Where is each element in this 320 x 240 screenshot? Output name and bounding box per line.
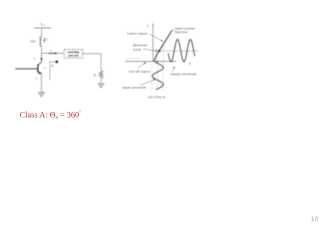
inductor RFC [40,37,42,46]
svg-text:Quiescent: Quiescent [133,43,148,47]
svg-text:vCE: vCE [43,67,48,71]
wire RFC to collector node [41,46,43,53]
svg-text:Class A: Θa = 360°: Class A: Θa = 360° [20,110,82,120]
wire collector node down to transistor [41,53,43,62]
axis vBE horizontal [125,60,176,62]
svg-text:vBE: vBE [35,77,39,80]
transistor Q1 emitter lead with arrow [38,71,42,74]
label Linear region [127,32,163,42]
label Input waveform [123,79,156,90]
dashed guide left [151,62,153,92]
transfer function line [154,32,171,62]
svg-text:point: point [134,47,142,51]
svg-text:Output waveform: Output waveform [171,72,197,76]
wire matching network to load [83,54,102,71]
svg-text:function: function [175,30,188,34]
current arrow iC [40,58,42,61]
svg-text:VCC: VCC [40,22,45,27]
svg-text:RFC: RFC [31,40,37,44]
svg-text:Cut-off region: Cut-off region [129,69,150,73]
wire RL to ground [100,78,102,84]
svg-text:Io: Io [49,48,52,53]
svg-text:network: network [68,53,79,57]
ground (emitter) [38,92,44,97]
svg-text:t: t [189,62,191,67]
output waveform sine [168,39,194,61]
current arrow IQ [43,37,48,42]
current arrow Io on output wire [48,48,57,54]
supply rail VCC [34,27,51,29]
base input wire [15,68,38,70]
input waveform sine [152,62,163,90]
matching network box [64,49,82,58]
dashed guide right [162,46,164,91]
transistor Q1 base bar [37,64,39,72]
ground (load) [98,84,104,88]
svg-text:(a) Class A: (a) Class A [148,95,166,99]
Q projection dot on axis [157,61,159,63]
cutoff faint line [125,57,139,59]
wire collector node to matching network [42,52,65,54]
resistor RL [99,71,103,78]
dashed guide center [157,52,159,91]
emitter wire to ground [40,74,42,92]
wire VCC to RFC [41,28,43,37]
axis iC vertical [152,23,154,61]
label Quiescent point [133,43,158,52]
label Ideal transfer function [171,26,196,34]
svg-text:Ri: Ri [50,64,54,69]
transistor Q1 collector lead [38,62,41,66]
quiescent point dot [158,50,160,52]
Q level line [153,50,199,52]
svg-text:iC: iC [34,56,37,61]
node Ri probe with dot [50,61,58,81]
svg-text:iC: iC [147,24,150,29]
label Cut-off region [129,62,150,73]
svg-text:Linear region: Linear region [127,32,147,36]
svg-text:Input waveform: Input waveform [123,85,147,89]
svg-text:10: 10 [311,216,319,223]
label Output waveform [171,67,197,76]
svg-text:IQ: IQ [45,38,49,42]
svg-text:RL: RL [92,73,97,78]
